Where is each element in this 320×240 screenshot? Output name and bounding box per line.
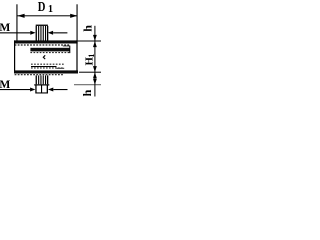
svg-text:h: h	[80, 89, 94, 96]
dimension line D1	[17, 14, 77, 17]
extension line right (x=77)	[77, 4, 78, 41]
extension line body top right (y=41)	[78, 41, 101, 42]
arrowhead M bottom left	[30, 88, 35, 92]
leader line M top left	[0, 32, 30, 33]
label D1 (diameter)	[38, 0, 53, 15]
leader tail M bottom right	[53, 89, 67, 90]
lower plate thin right line	[57, 67, 65, 70]
arrowhead up at y72.2 (h bottom top)	[93, 72, 97, 78]
body top plate band	[14, 40, 77, 43]
arrowhead down at y72.2 (H1 bottom)	[93, 66, 97, 72]
middle plate band	[30, 48, 69, 52]
bottom stud thread lines	[36, 75, 49, 84]
extension line body bottom right (y=72.2)	[79, 72, 101, 73]
leader tail M top right	[53, 32, 67, 33]
label H1 (rotated)	[83, 54, 96, 66]
arrowhead down at y84.7	[93, 79, 97, 85]
leader line M bottom left	[0, 89, 30, 90]
extension line left (x=17)	[16, 4, 17, 40]
lower plate line	[31, 66, 57, 67]
arrowhead M bottom right	[48, 88, 53, 92]
nut bottom line	[35, 92, 48, 93]
vertical dimension line h top	[94, 26, 95, 41]
nut right edge	[47, 86, 48, 93]
hatch dash row above lower band	[31, 63, 64, 65]
arrowhead D1 left	[17, 14, 24, 18]
top stud cap	[36, 25, 48, 26]
nut left edge	[35, 86, 36, 93]
arrowhead M top left	[30, 31, 35, 35]
svg-text:1: 1	[87, 54, 96, 58]
svg-text:1: 1	[48, 4, 53, 15]
arrowhead down at y41	[93, 35, 97, 41]
step vertical at right of middle band	[69, 46, 70, 54]
body bottom band	[14, 70, 78, 73]
nut middle facet	[41, 86, 42, 93]
extension line washer right (y=84.7)	[74, 83, 101, 86]
vertical dimension line H1	[94, 41, 95, 72]
arrowhead D1 right	[70, 14, 77, 18]
vertical dimension line h bottom	[94, 72, 95, 96]
arrowhead M top right	[48, 31, 53, 35]
hatch segment line right	[63, 45, 70, 48]
rubber hatch mark	[43, 55, 45, 59]
top stud thread lines	[36, 26, 49, 41]
washer under bottom stud	[34, 84, 49, 85]
arrowhead up at y41 (H1 top)	[93, 41, 97, 47]
hatch dash row below bottom band	[15, 74, 63, 76]
lower plate hatch dashes	[31, 67, 64, 69]
body left edge	[14, 40, 15, 73]
hatch dash row under top plate	[15, 44, 70, 46]
body right edge	[76, 40, 77, 73]
svg-text:h: h	[81, 25, 95, 32]
svg-text:M: M	[0, 21, 10, 34]
hatch dash row under middle band	[30, 52, 69, 54]
svg-text:D: D	[38, 0, 46, 14]
